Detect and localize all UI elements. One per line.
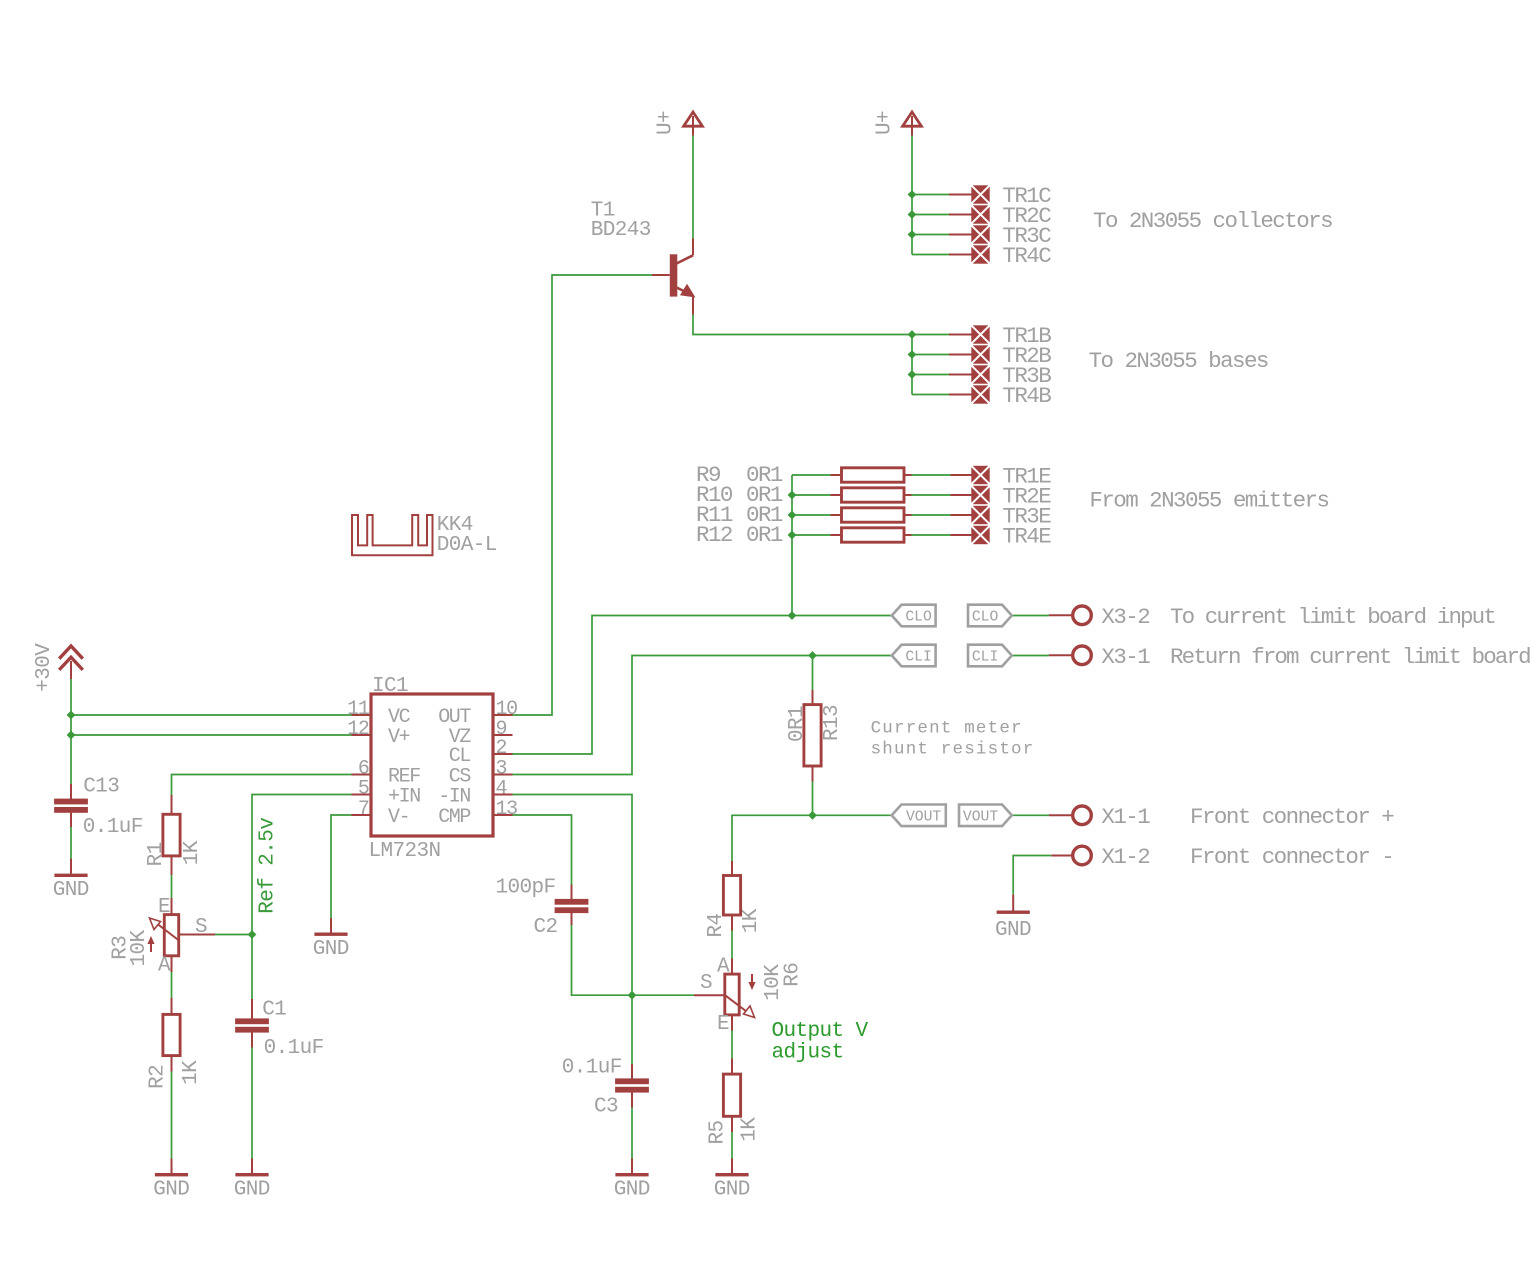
svg-text:R5: R5 [706, 1120, 729, 1144]
svg-text:CMP: CMP [438, 806, 470, 829]
svg-text:V+: V+ [388, 726, 410, 749]
svg-text:GND: GND [714, 1179, 750, 1202]
svg-text:C13: C13 [83, 775, 119, 798]
svg-text:CLI: CLI [972, 650, 998, 666]
svg-text:GND: GND [614, 1179, 650, 1202]
svg-text:shunt resistor: shunt resistor [871, 740, 1035, 760]
svg-text:C3: C3 [594, 1095, 618, 1118]
svg-text:BD243: BD243 [591, 219, 651, 242]
svg-text:Output V: Output V [772, 1020, 869, 1043]
svg-text:V-: V- [388, 806, 409, 829]
svg-text:U+: U+ [655, 111, 678, 135]
svg-text:7: 7 [358, 798, 369, 821]
svg-text:C2: C2 [534, 916, 558, 939]
svg-text:CLO: CLO [972, 610, 999, 626]
svg-text:TR4B: TR4B [1002, 383, 1051, 409]
svg-text:To 2N3055 bases: To 2N3055 bases [1089, 348, 1268, 374]
svg-text:Ref 2.5v: Ref 2.5v [256, 818, 279, 914]
svg-text:C1: C1 [262, 998, 286, 1021]
svg-text:R12: R12 [696, 522, 732, 548]
svg-text:0.1uF: 0.1uF [264, 1037, 324, 1060]
svg-text:R2: R2 [147, 1065, 170, 1089]
svg-text:D0A-L: D0A-L [437, 534, 497, 557]
svg-text:0R1: 0R1 [746, 522, 783, 548]
svg-text:R1: R1 [145, 842, 168, 866]
svg-text:S: S [195, 916, 207, 939]
svg-text:TR4C: TR4C [1002, 243, 1051, 269]
svg-text:Return from current limit boar: Return from current limit board [1170, 644, 1530, 670]
svg-text:U+: U+ [874, 111, 897, 135]
svg-text:E: E [158, 896, 170, 919]
svg-text:GND: GND [234, 1179, 270, 1202]
svg-text:GND: GND [995, 919, 1031, 942]
svg-text:To current limit board input: To current limit board input [1170, 604, 1495, 630]
svg-text:1K: 1K [739, 1117, 762, 1142]
svg-text:13: 13 [496, 798, 518, 821]
svg-text:IC1: IC1 [372, 675, 408, 698]
svg-text:A: A [158, 955, 171, 978]
svg-text:1K: 1K [740, 908, 763, 933]
svg-text:TR4E: TR4E [1002, 524, 1051, 550]
svg-text:10K: 10K [128, 929, 151, 966]
svg-text:0.1uF: 0.1uF [83, 816, 143, 839]
svg-text:12: 12 [347, 718, 369, 741]
svg-text:Front connector -: Front connector - [1190, 844, 1393, 870]
svg-text:CLO: CLO [905, 610, 932, 626]
svg-text:GND: GND [53, 879, 89, 902]
svg-text:100pF: 100pF [496, 876, 556, 899]
svg-text:1K: 1K [180, 1060, 203, 1085]
svg-text:R6: R6 [781, 963, 804, 987]
svg-text:S: S [700, 972, 712, 995]
svg-text:+30V: +30V [33, 643, 56, 692]
svg-text:CLI: CLI [905, 650, 931, 666]
svg-text:VOUT: VOUT [963, 809, 998, 825]
svg-text:X1-2: X1-2 [1101, 844, 1149, 870]
svg-text:VOUT: VOUT [906, 809, 941, 825]
svg-text:X3-2: X3-2 [1101, 604, 1149, 630]
svg-text:To 2N3055 collectors: To 2N3055 collectors [1093, 208, 1332, 234]
svg-text:Front connector +: Front connector + [1190, 804, 1394, 830]
svg-text:R13: R13 [821, 705, 844, 741]
svg-text:GND: GND [313, 938, 349, 961]
svg-text:E: E [717, 1013, 729, 1036]
svg-text:X1-1: X1-1 [1101, 804, 1150, 830]
svg-text:0.1uF: 0.1uF [562, 1057, 622, 1080]
svg-text:LM723N: LM723N [369, 840, 441, 863]
svg-text:Current meter: Current meter [871, 719, 1023, 739]
svg-text:A: A [717, 955, 730, 978]
svg-text:0R1: 0R1 [786, 706, 809, 742]
svg-text:R4: R4 [705, 913, 728, 937]
svg-text:From 2N3055 emitters: From 2N3055 emitters [1089, 488, 1328, 514]
svg-text:1K: 1K [181, 840, 204, 865]
svg-text:GND: GND [153, 1179, 189, 1202]
svg-text:X3-1: X3-1 [1101, 644, 1150, 670]
svg-text:adjust: adjust [772, 1042, 844, 1065]
